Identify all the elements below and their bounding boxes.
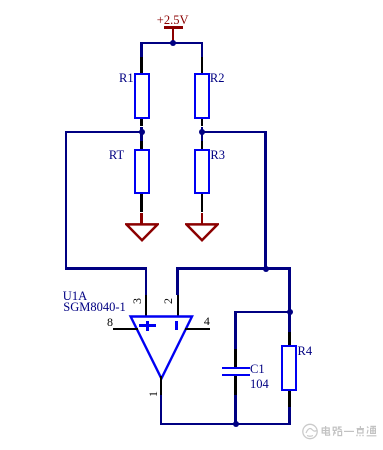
wire mid-right rail <box>201 131 267 133</box>
watermark text 电路一点通 <box>321 425 377 440</box>
junction dot power <box>170 40 176 46</box>
junction dot R1-RT <box>139 129 145 135</box>
capacitor C1 plate top <box>222 367 250 370</box>
pin C1 bottom <box>234 376 236 395</box>
junction dot R2-R3 <box>199 129 205 135</box>
label C1 <box>250 363 265 376</box>
label pin 3 <box>130 294 144 308</box>
pin R2 top <box>201 57 203 74</box>
watermark logo <box>295 420 383 446</box>
路 <box>333 427 336 430</box>
wire R3 top <box>201 131 203 141</box>
label R1 <box>119 72 134 85</box>
power label +2.5V <box>157 14 189 27</box>
wire R2 drop <box>201 42 203 57</box>
wire R4 bottom <box>288 407 290 425</box>
op-amp plus mark <box>139 324 156 327</box>
点 <box>357 426 364 436</box>
pin RT top <box>140 141 142 149</box>
wire C1-R4 top rail <box>234 311 290 313</box>
resistor R2 <box>194 73 210 119</box>
label pin 8 <box>107 316 113 328</box>
wire output rail upper <box>176 267 290 269</box>
power stem <box>172 29 174 44</box>
pin RT bottom <box>140 194 142 212</box>
wire output vertical <box>160 395 162 425</box>
pin 4 stub <box>185 328 210 330</box>
label U1A <box>63 290 87 303</box>
resistor RT <box>134 149 150 195</box>
label RT <box>109 149 124 162</box>
ground stem left <box>140 213 143 225</box>
wire feedback drop <box>288 267 290 313</box>
label pin 1 <box>146 387 160 401</box>
wire R2 bottom <box>201 127 203 134</box>
resistor R1 <box>134 73 150 119</box>
label 104 <box>250 378 269 391</box>
ground symbol right <box>185 223 219 242</box>
pin R1 top <box>140 57 142 74</box>
一 <box>344 430 354 432</box>
label pin 2 <box>161 294 175 308</box>
wire pin3 vertical <box>145 267 147 295</box>
wire inverting riser <box>264 131 266 270</box>
pin 2 lead <box>177 295 179 317</box>
label R2 <box>210 72 225 85</box>
wire mid-left rail <box>65 131 143 133</box>
wire pin2 vertical <box>176 267 178 295</box>
power bar symbol <box>164 26 183 29</box>
pin R3 bottom <box>201 194 203 212</box>
wire RT top <box>140 131 142 141</box>
wire top rail <box>140 42 203 44</box>
pin C1 top <box>234 349 236 367</box>
pin R4 top <box>288 332 290 346</box>
op-amp minus mark <box>175 321 178 330</box>
pin R2 bottom <box>201 119 203 127</box>
wire left sense vertical <box>65 131 67 270</box>
wire output bottom rail <box>160 423 291 425</box>
wire C1 top <box>234 311 236 349</box>
label R3 <box>210 149 225 162</box>
op-amp U1A triangle <box>127 313 197 383</box>
ground stem right <box>201 213 204 225</box>
wire R4 top <box>288 311 290 332</box>
ground symbol left <box>125 223 159 242</box>
label SGM8040-1 <box>63 301 126 314</box>
resistor R3 <box>194 149 210 195</box>
wire left sense horizontal <box>65 267 147 269</box>
wire R1 bottom <box>140 127 142 134</box>
通 <box>367 427 377 436</box>
wire R1 drop <box>140 42 142 57</box>
pin 1 lead <box>160 376 162 396</box>
pin R1 bottom <box>140 119 142 127</box>
resistor R4 <box>281 345 297 391</box>
电 <box>326 426 330 435</box>
pin 3 lead <box>145 295 147 317</box>
junction dot feedback <box>263 266 269 272</box>
label R4 <box>298 345 313 358</box>
capacitor C1 plate bottom <box>222 374 250 377</box>
pin R3 top <box>201 141 203 149</box>
pin R4 bottom <box>288 391 290 407</box>
junction dot R4 top <box>287 309 293 315</box>
label pin 4 <box>204 315 210 327</box>
junction dot C1 bottom <box>233 421 239 427</box>
pin 8 stub <box>113 328 138 330</box>
wire C1 bottom <box>234 395 236 425</box>
